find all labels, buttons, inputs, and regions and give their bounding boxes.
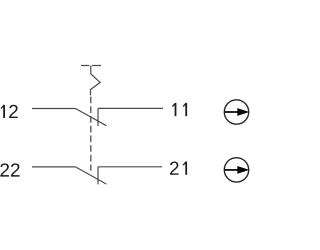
terminal label 21 xyxy=(170,162,187,175)
contact 11-12: right wire xyxy=(98,107,163,109)
direction-of-operation symbol (bottom): circle xyxy=(224,158,248,182)
contact 11-12: moving contact diagonal xyxy=(76,109,107,126)
direction-of-operation symbol (top): arrow xyxy=(224,108,249,116)
contact 21-22: fixed terminal bar xyxy=(97,167,99,185)
contact 21-22: right wire xyxy=(98,166,162,168)
terminal label 22 xyxy=(0,163,19,176)
contact 21-22: moving contact diagonal xyxy=(76,167,107,184)
contact 21-22: left wire xyxy=(32,166,76,168)
mechanical linkage (dashed vertical) xyxy=(90,97,92,171)
terminal label 11 xyxy=(172,103,187,116)
latching mechanism zigzag xyxy=(91,66,101,96)
contact 11-12: fixed terminal bar xyxy=(97,108,99,126)
contact 11-12: left wire xyxy=(32,108,76,110)
actuator head bar (dashed) xyxy=(81,65,101,67)
terminal label 12 xyxy=(1,105,18,118)
direction-of-operation symbol (bottom): arrow xyxy=(224,166,249,174)
direction-of-operation symbol (top): circle xyxy=(224,100,248,124)
